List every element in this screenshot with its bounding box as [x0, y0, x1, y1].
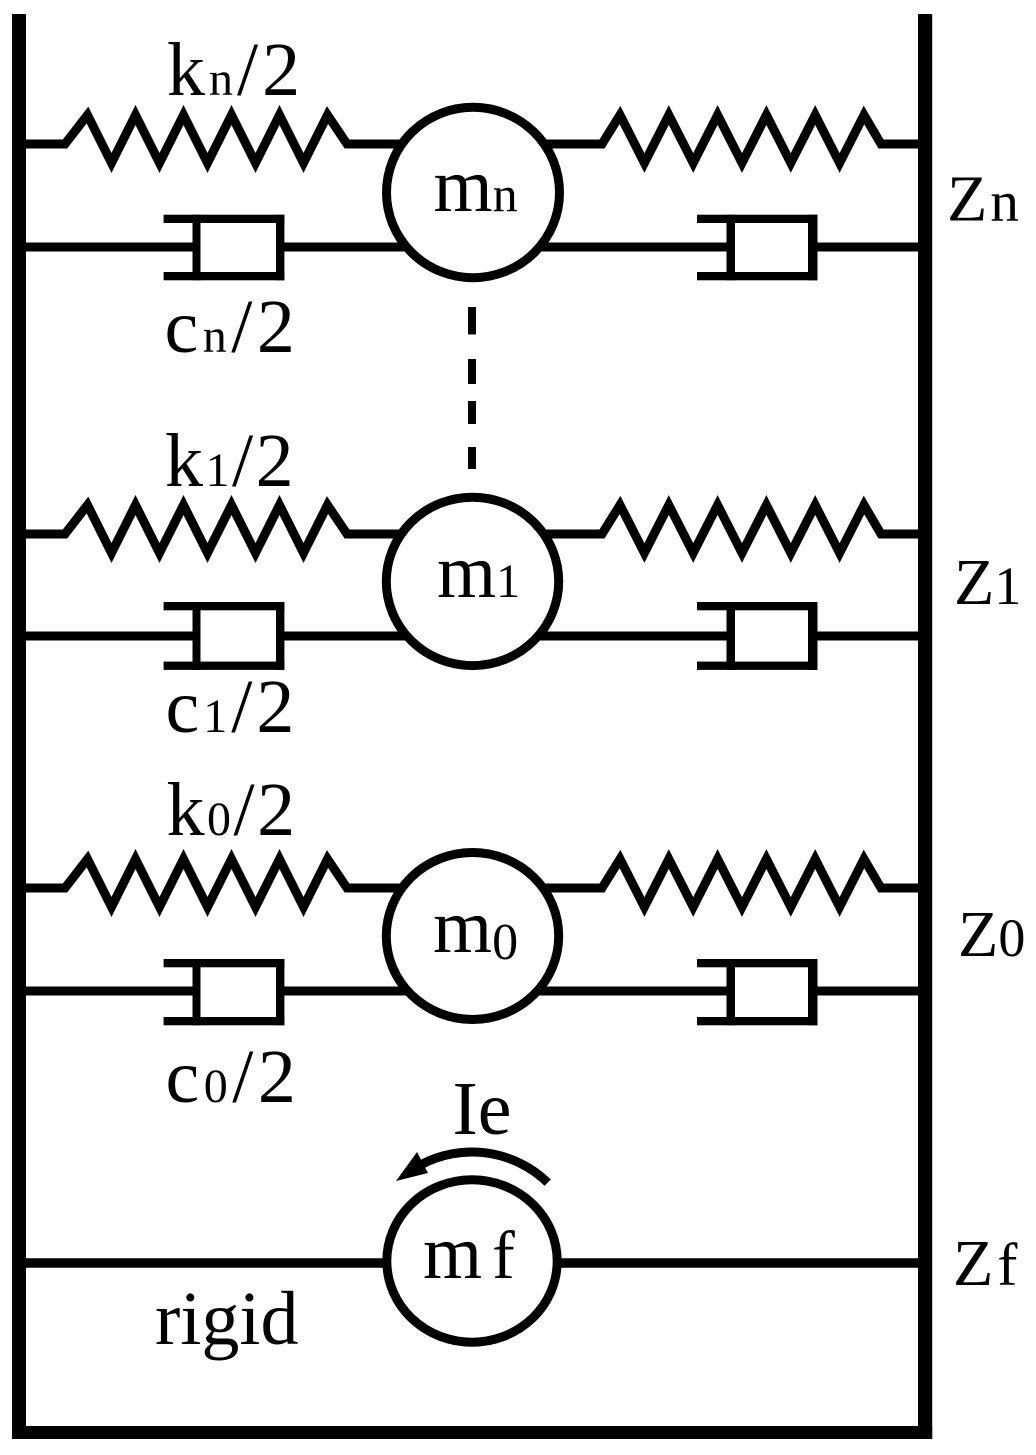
- svg-text:Z1: Z1: [954, 546, 1021, 619]
- damper cn/2 left body (row 1): [164, 215, 285, 281]
- wire damper-left to mass (row 2): [284, 632, 473, 641]
- wire damper-left to mass (row 1): [284, 243, 473, 252]
- spring kn/2 right (row 1): [473, 115, 918, 163]
- damper right rod to wall (row 3): [817, 987, 918, 996]
- wall right: [918, 14, 932, 1439]
- svg-text:Z0: Z0: [958, 898, 1025, 971]
- spring k1/2 right (row 2): [473, 505, 918, 553]
- svg-text:c1/2: c1/2: [166, 665, 299, 749]
- svg-text:rigid: rigid: [155, 1277, 299, 1361]
- mass mn: [387, 107, 560, 277]
- damper c1/2 left body (row 2): [164, 602, 285, 670]
- spring kn/2 left (row 1): [26, 115, 473, 163]
- rotation arrowhead: [396, 1152, 428, 1181]
- damper c1/2 left rod (row 2): [26, 632, 201, 641]
- mass m1: [386, 497, 558, 665]
- spring k1/2 left (row 2): [26, 505, 473, 553]
- damper right body (row 2): [697, 602, 818, 670]
- ground base bar: [12, 1426, 932, 1439]
- mass mf: [387, 1180, 557, 1342]
- svg-text:Zn: Zn: [947, 163, 1022, 236]
- wire damper-left to mass (row 3): [284, 987, 473, 996]
- damper cn/2 left rod (row 1): [26, 243, 201, 252]
- rigid base line through mf: [26, 1258, 918, 1268]
- svg-text:Ie: Ie: [453, 1067, 512, 1151]
- svg-text:c0/2: c0/2: [166, 1035, 301, 1119]
- damper c0/2 left rod (row 3): [26, 987, 201, 996]
- rotation arc Ie: [421, 1152, 548, 1183]
- wire mass to damper-right (row 2): [473, 632, 730, 641]
- dashed connector mn to m1: [468, 307, 476, 469]
- spring k0/2 left (row 3): [26, 859, 473, 907]
- svg-text:mf: mf: [423, 1211, 525, 1295]
- mass m0: [386, 853, 558, 1020]
- spring k0/2 right (row 3): [473, 859, 918, 907]
- svg-text:cn/2: cn/2: [165, 285, 300, 369]
- damper right body (row 3): [697, 959, 818, 1025]
- damper right rod to wall (row 1): [817, 243, 918, 252]
- svg-text:Zf: Zf: [953, 1227, 1021, 1300]
- damper right body (row 1): [697, 215, 818, 281]
- wire mass to damper-right (row 3): [473, 987, 730, 996]
- wire mass to damper-right (row 1): [473, 243, 730, 252]
- damper c0/2 left body (row 3): [164, 959, 285, 1025]
- damper right rod to wall (row 2): [817, 632, 918, 641]
- wall left: [12, 14, 26, 1439]
